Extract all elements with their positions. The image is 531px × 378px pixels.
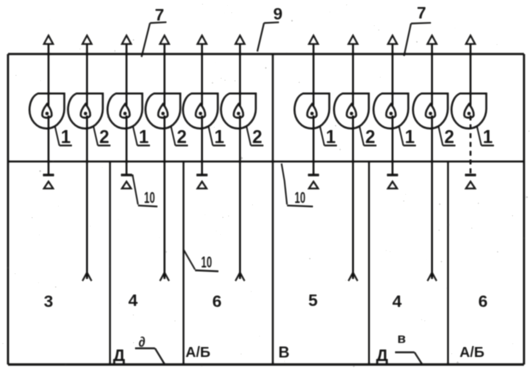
svg-text:2: 2 xyxy=(177,127,187,147)
svg-text:4: 4 xyxy=(392,292,402,311)
svg-text:1: 1 xyxy=(483,127,493,147)
svg-text:4: 4 xyxy=(128,291,138,310)
svg-text:3: 3 xyxy=(44,292,53,311)
svg-text:1: 1 xyxy=(61,127,71,147)
svg-text:Д: Д xyxy=(376,346,388,365)
svg-text:А/Б: А/Б xyxy=(186,345,211,361)
svg-text:10: 10 xyxy=(294,189,305,207)
svg-text:5: 5 xyxy=(308,291,317,310)
svg-text:1: 1 xyxy=(405,127,415,147)
svg-text:10: 10 xyxy=(144,189,155,207)
svg-text:2: 2 xyxy=(365,127,375,147)
svg-text:2: 2 xyxy=(252,127,262,147)
svg-text:6: 6 xyxy=(478,292,487,311)
svg-text:1: 1 xyxy=(139,127,149,147)
svg-text:1: 1 xyxy=(214,127,224,147)
svg-text:6: 6 xyxy=(212,292,221,311)
svg-text:2: 2 xyxy=(444,127,454,147)
svg-text:в: в xyxy=(397,330,406,346)
svg-text:9: 9 xyxy=(273,5,282,24)
svg-text:А/Б: А/Б xyxy=(460,345,485,361)
svg-text:2: 2 xyxy=(99,127,109,147)
svg-text:7: 7 xyxy=(417,4,426,23)
svg-text:1: 1 xyxy=(326,127,336,147)
svg-text:10: 10 xyxy=(201,253,212,271)
svg-text:В: В xyxy=(278,345,289,362)
svg-text:Д: Д xyxy=(113,346,125,365)
